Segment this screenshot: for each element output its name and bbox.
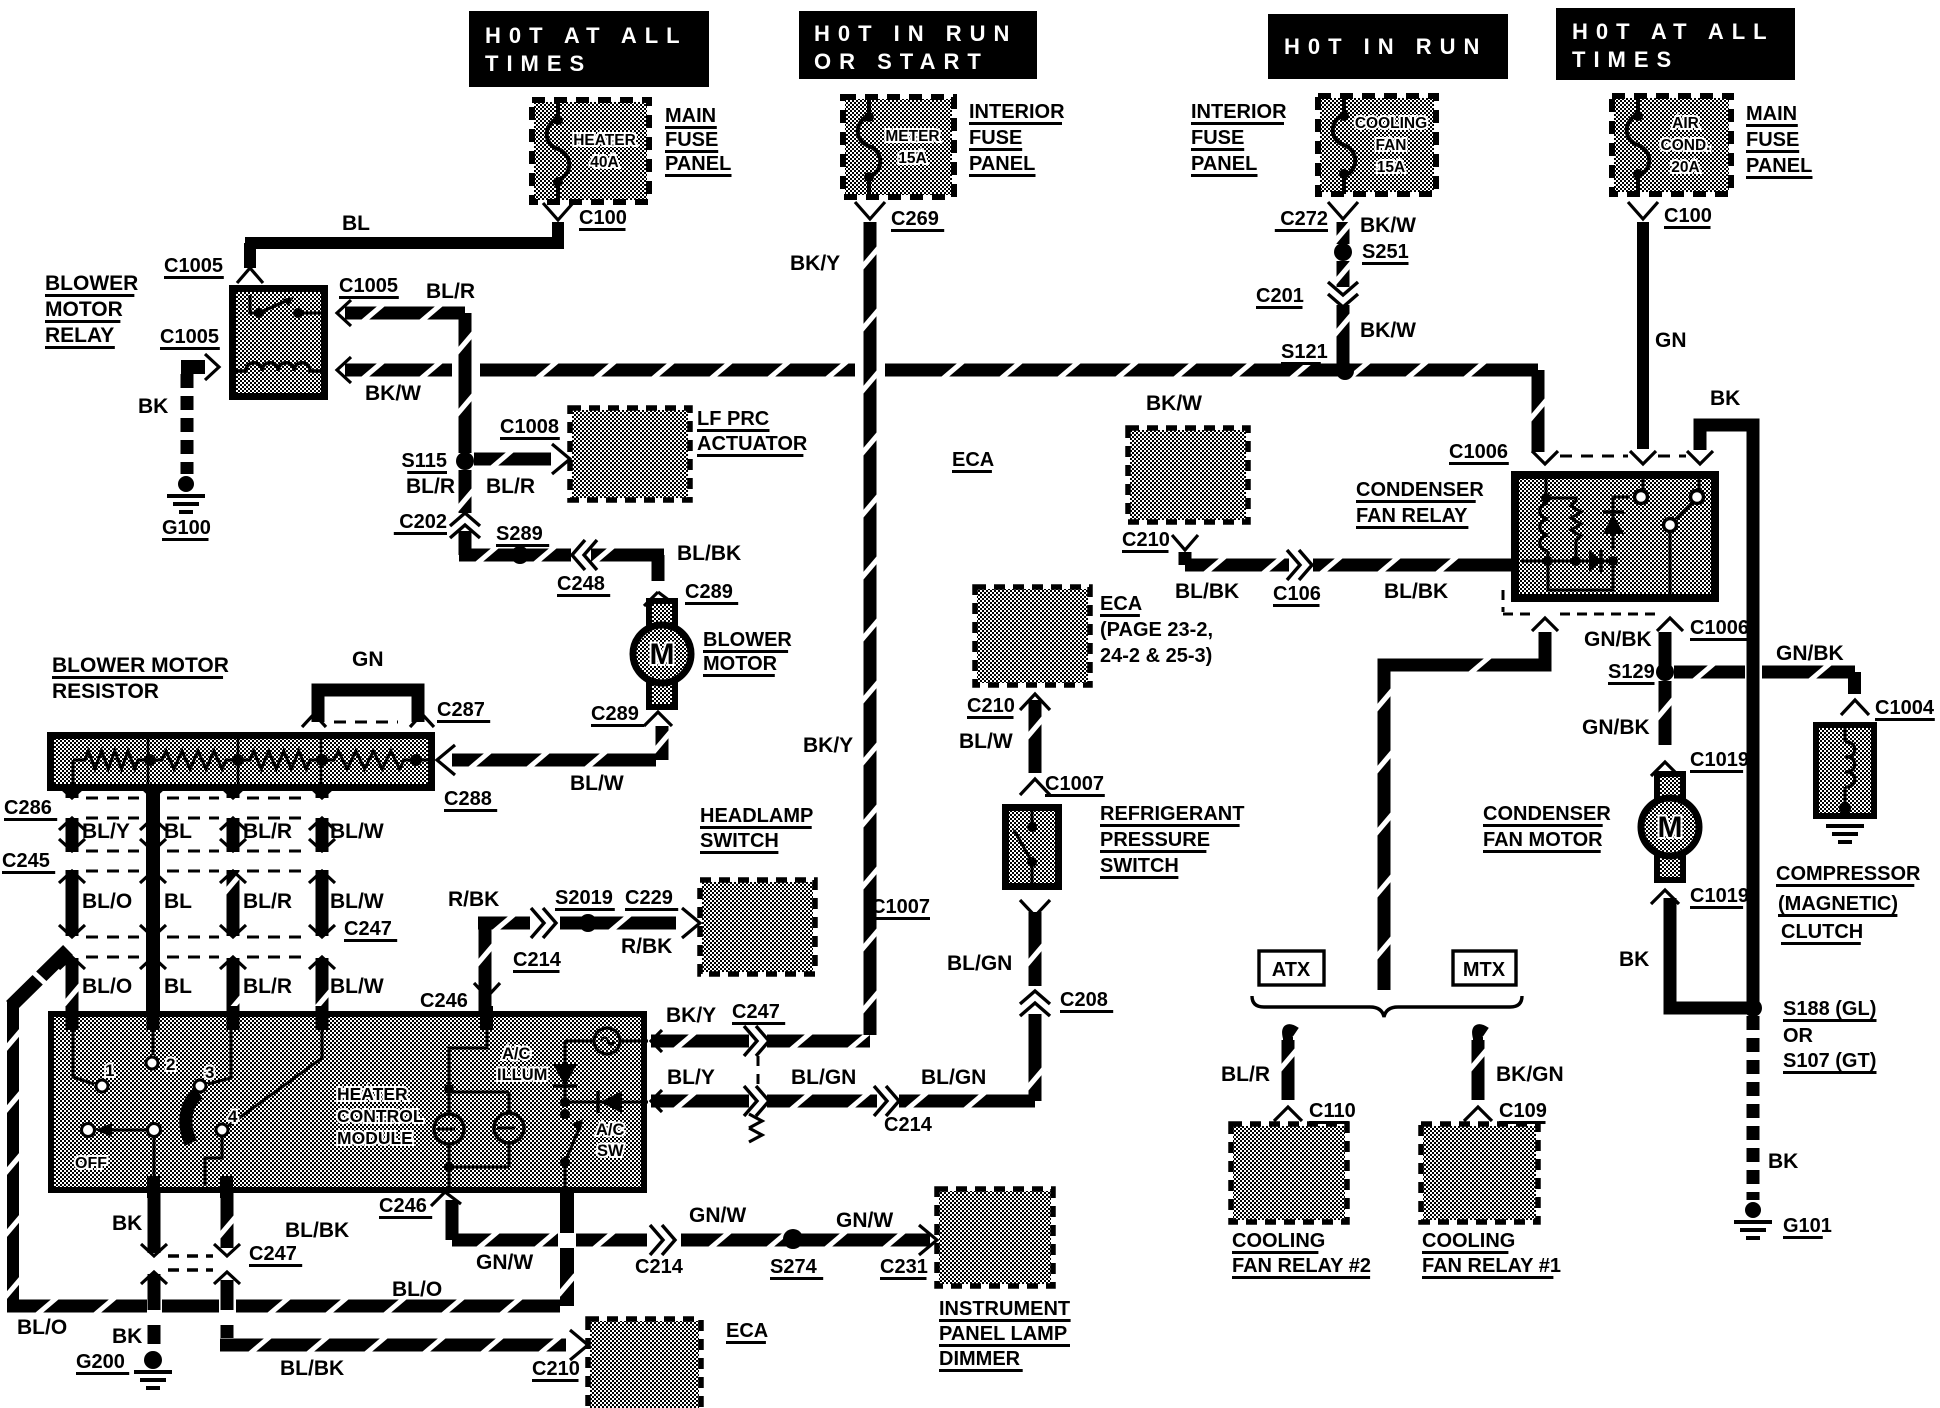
svg-text:C245: C245 <box>2 850 50 872</box>
connector C1019 (bottom) <box>1651 885 1749 908</box>
label A/C SW <box>596 1121 625 1160</box>
svg-text:3: 3 <box>205 1063 214 1082</box>
label HEATER CONTROL MODULE <box>337 1084 424 1148</box>
svg-text:BL/O: BL/O <box>82 890 132 913</box>
svg-text:C214: C214 <box>513 949 562 971</box>
svg-text:C247: C247 <box>344 918 392 940</box>
svg-text:C202: C202 <box>399 511 447 533</box>
svg-text:FUSE: FUSE <box>969 127 1022 149</box>
svg-text:TIMES: TIMES <box>1572 47 1679 72</box>
module heater control module box <box>48 1011 647 1193</box>
svg-text:C289: C289 <box>591 703 639 725</box>
wire BK module to ground G200 <box>112 1193 161 1348</box>
connector C1004 <box>1841 697 1935 720</box>
wire BK/W S251 to C201 <box>1335 261 1352 287</box>
svg-text:G101: G101 <box>1783 1215 1832 1237</box>
svg-text:ACTUATOR: ACTUATOR <box>697 433 808 455</box>
svg-text:BK/W: BK/W <box>1360 214 1416 237</box>
label LF PRC ACTUATOR <box>697 408 808 456</box>
module instrument panel lamp dimmer box <box>937 1189 1053 1286</box>
connector C289 above blower motor <box>644 581 738 606</box>
wire BK dashed to ground G101 <box>1753 1016 1798 1200</box>
svg-text:COOLING: COOLING <box>1355 115 1427 132</box>
wire labels row 3 <box>82 975 384 998</box>
svg-text:COMPRESSOR: COMPRESSOR <box>1776 863 1921 885</box>
connector C214 on BL/GN wire <box>874 1086 933 1136</box>
module ECA box (bottom) <box>588 1319 701 1408</box>
splice S121 <box>1281 341 1354 380</box>
svg-text:BL: BL <box>164 890 192 913</box>
svg-text:PANEL: PANEL <box>1191 153 1257 175</box>
svg-text:BK/W: BK/W <box>365 382 421 405</box>
wire GN from C100 to condenser fan relay <box>1637 222 1687 449</box>
svg-text:BL/GN: BL/GN <box>791 1066 856 1089</box>
svg-text:BL/Y: BL/Y <box>667 1066 715 1089</box>
svg-text:C1008: C1008 <box>500 416 559 438</box>
svg-text:BL/R: BL/R <box>243 820 292 843</box>
connector C210 below page ECA <box>967 694 1050 718</box>
connector C246 below module <box>379 1192 461 1218</box>
connector C106 <box>1273 550 1321 606</box>
svg-text:C269: C269 <box>891 208 939 230</box>
svg-text:ECA: ECA <box>726 1320 768 1342</box>
label CONDENSER FAN RELAY <box>1356 479 1484 528</box>
svg-text:BL/O: BL/O <box>82 975 132 998</box>
svg-text:C246: C246 <box>379 1195 427 1217</box>
label HEADLAMP SWITCH <box>700 805 813 853</box>
connector C109 <box>1464 1100 1547 1123</box>
svg-text:C214: C214 <box>635 1256 684 1278</box>
power label HOT AT ALL TIMES (right) <box>1556 8 1795 80</box>
label INSTRUMENT PANEL LAMP DIMMER <box>939 1298 1071 1371</box>
svg-text:4: 4 <box>228 1107 238 1126</box>
svg-text:C110: C110 <box>1309 1100 1356 1122</box>
wire BK/W C272 to S251 <box>1335 214 1417 244</box>
wire BL/R from S115 down to C202 <box>406 470 474 513</box>
connector C110 <box>1274 1100 1356 1123</box>
wire GN/BK relay to ATX/MTX brace <box>1376 632 1546 990</box>
svg-text:(PAGE 23-2,: (PAGE 23-2, <box>1100 619 1213 641</box>
module top pin stubs <box>66 1006 494 1030</box>
connector C231 <box>880 1225 937 1279</box>
svg-text:GN/BK: GN/BK <box>1582 716 1650 739</box>
module internal thermal limiter and AC switch <box>553 1028 648 1188</box>
connector C214 on GN/W wire <box>635 1225 684 1278</box>
svg-text:COOLING: COOLING <box>1232 1230 1325 1252</box>
svg-text:MAIN: MAIN <box>1746 103 1797 125</box>
component LF PRC ACTUATOR box <box>570 408 690 500</box>
connector C269 below meter fuse <box>855 202 944 231</box>
svg-text:BK/W: BK/W <box>1146 392 1202 415</box>
svg-text:M: M <box>650 638 675 671</box>
connector C1005 relay left (BK) <box>160 326 220 380</box>
module right edge exit chevrons <box>651 1030 662 1112</box>
svg-text:C246: C246 <box>420 990 468 1012</box>
wire R/BK module to headlamp switch <box>448 888 676 1011</box>
splice S115 <box>401 450 474 473</box>
svg-text:BL/R: BL/R <box>1221 1063 1270 1086</box>
connector C289 below blower motor <box>591 703 672 726</box>
svg-text:C100: C100 <box>579 207 627 229</box>
svg-text:BL/O: BL/O <box>392 1278 442 1301</box>
wire GN/BK S129 to compressor clutch <box>1674 642 1861 694</box>
wire BL from C100 to blower motor relay <box>244 212 564 268</box>
svg-text:ILLUM: ILLUM <box>497 1066 547 1084</box>
wire BL/Y BL/GN module to C208 corner <box>651 925 1044 1110</box>
svg-text:BL/W: BL/W <box>330 820 384 843</box>
wire BL/W to refrigerant pressure switch <box>959 700 1044 773</box>
svg-text:C288: C288 <box>444 788 492 810</box>
svg-text:INTERIOR: INTERIOR <box>969 101 1065 123</box>
brace for ATX/MTX split <box>1252 996 1522 1017</box>
relay K1 blower motor relay box <box>229 285 328 400</box>
wire BK condenser fan motor to S188 <box>1619 898 1748 1008</box>
label COMPRESSOR MAGNETIC CLUTCH <box>1776 863 1921 944</box>
svg-text:BL/O: BL/O <box>17 1316 67 1339</box>
svg-text:BLOWER: BLOWER <box>45 272 138 295</box>
svg-text:BL/BK: BL/BK <box>280 1357 344 1380</box>
svg-text:MODULE: MODULE <box>337 1128 413 1148</box>
module internal AC illumination lamps <box>434 1030 524 1188</box>
svg-text:GN/W: GN/W <box>836 1209 893 1232</box>
wire BK from condenser fan relay to S188 vertical <box>1700 387 1753 1003</box>
connector C1007 (bottom) <box>870 896 1050 919</box>
svg-text:CONDENSER: CONDENSER <box>1356 479 1484 501</box>
svg-text:C272: C272 <box>1280 208 1328 230</box>
wire BL/GN pressure switch to C208 <box>1029 912 1042 930</box>
ground G200 <box>76 1351 172 1388</box>
wire GN/W from C246 to instrument panel lamp dimmer <box>446 1200 931 1274</box>
svg-text:PANEL: PANEL <box>1746 155 1812 177</box>
svg-text:BL/R: BL/R <box>243 890 292 913</box>
splice S289 <box>496 523 549 564</box>
svg-text:FAN RELAY #1: FAN RELAY #1 <box>1422 1255 1561 1277</box>
wire BK relay to ground G100 <box>138 360 205 474</box>
svg-text:SWITCH: SWITCH <box>700 830 779 852</box>
connector C246 at module top (R/BK pin) <box>420 983 500 1013</box>
svg-text:METER: METER <box>885 128 939 145</box>
svg-text:C286: C286 <box>4 797 52 819</box>
svg-text:BL/GN: BL/GN <box>947 952 1012 975</box>
svg-text:BK/W: BK/W <box>1360 319 1416 342</box>
svg-text:S274: S274 <box>770 1256 818 1278</box>
wire GN/BK S129 down to C1019 <box>1582 681 1674 745</box>
wire BK/W from relay to S121 and condenser fan relay <box>345 362 1547 453</box>
svg-text:BK: BK <box>138 395 168 418</box>
connector C202 <box>394 511 480 538</box>
svg-text:S289: S289 <box>496 523 543 545</box>
svg-text:PANEL: PANEL <box>665 153 731 175</box>
wire BK/GN to cooling fan relay 1 <box>1470 1029 1564 1100</box>
svg-text:BL/R: BL/R <box>426 280 475 303</box>
svg-text:15A: 15A <box>1377 159 1405 176</box>
svg-text:C231: C231 <box>880 1256 928 1278</box>
svg-text:S2019: S2019 <box>555 887 613 909</box>
svg-text:C1006: C1006 <box>1690 617 1749 639</box>
wire labels row 1 <box>82 820 384 843</box>
svg-text:R/BK: R/BK <box>621 935 672 958</box>
wire BL/O from C247 around left side to module bottom <box>5 950 576 1339</box>
svg-text:C106: C106 <box>1273 583 1321 605</box>
switch refrigerant pressure switch box <box>1002 804 1062 890</box>
label ECA (bottom) <box>726 1320 768 1343</box>
svg-text:C109: C109 <box>1499 1100 1547 1122</box>
svg-text:(MAGNETIC): (MAGNETIC) <box>1778 893 1898 915</box>
svg-text:C1005: C1005 <box>160 326 219 348</box>
svg-text:2: 2 <box>166 1055 175 1074</box>
svg-text:CONTROL: CONTROL <box>337 1106 424 1126</box>
connector C210 below middle ECA <box>1122 529 1198 552</box>
svg-text:DIMMER: DIMMER <box>939 1348 1021 1370</box>
svg-text:BK: BK <box>1710 387 1740 410</box>
svg-text:HEADLAMP: HEADLAMP <box>700 805 813 827</box>
wire GN jumper over resistor <box>318 648 418 722</box>
wire BL/R from S115 to LF PRC actuator <box>474 451 551 499</box>
label CONDENSER FAN MOTOR <box>1483 803 1611 852</box>
svg-text:OFF: OFF <box>75 1155 107 1172</box>
svg-text:H0T AT ALL: H0T AT ALL <box>485 23 688 48</box>
svg-text:HEATER: HEATER <box>573 132 636 149</box>
svg-text:S115: S115 <box>401 450 447 472</box>
svg-text:GN/W: GN/W <box>476 1251 533 1274</box>
wire BL/BK from C202 via S289 and C248 to C289 <box>459 531 742 581</box>
svg-text:H0T IN RUN: H0T IN RUN <box>1284 34 1487 59</box>
svg-text:OR: OR <box>1783 1025 1814 1047</box>
connector C210 to ECA (bottom) <box>532 1330 588 1381</box>
connector C100 below heater fuse <box>543 203 627 230</box>
svg-text:HEATER: HEATER <box>337 1084 408 1104</box>
connector row C286 <box>4 786 335 830</box>
svg-text:FAN: FAN <box>1376 137 1407 154</box>
svg-text:MOTOR: MOTOR <box>703 653 778 675</box>
solenoid compressor magnetic clutch coil <box>1813 722 1877 819</box>
svg-text:C247: C247 <box>249 1243 297 1265</box>
relay K2 condenser fan relay box <box>1511 471 1719 602</box>
svg-text:PANEL LAMP: PANEL LAMP <box>939 1323 1067 1345</box>
label COOLING FAN RELAY 2 <box>1232 1230 1371 1278</box>
label A/C ILLUM <box>497 1045 547 1084</box>
svg-text:BL/GN: BL/GN <box>921 1066 986 1089</box>
svg-text:H0T AT ALL: H0T AT ALL <box>1572 19 1775 44</box>
svg-text:GN/BK: GN/BK <box>1584 628 1652 651</box>
svg-text:BL/W: BL/W <box>959 730 1013 753</box>
connector C1008 <box>500 416 570 474</box>
wire BL/W from blower motor to C288 <box>452 726 671 795</box>
svg-text:CLUTCH: CLUTCH <box>1781 921 1863 943</box>
connector C247 on module right wires <box>732 1001 785 1142</box>
label ATX <box>1259 951 1324 985</box>
svg-text:FUSE: FUSE <box>1191 127 1244 149</box>
connector C1006 at relay top <box>1449 441 1713 464</box>
svg-text:24-2 & 25-3): 24-2 & 25-3) <box>1100 645 1212 667</box>
connector C287 <box>302 699 490 727</box>
svg-text:GN/W: GN/W <box>689 1204 746 1227</box>
resistor pack blower motor resistor box <box>47 732 435 791</box>
svg-text:BL/BK: BL/BK <box>1384 580 1448 603</box>
splice S251 <box>1334 241 1409 264</box>
connector C1006 at relay bottom <box>1503 590 1750 640</box>
motor M condenser fan motor <box>1641 774 1699 880</box>
splice S129 <box>1608 661 1674 684</box>
svg-text:ECA: ECA <box>952 449 994 471</box>
wire BL column 2 resistor to module <box>146 791 160 1028</box>
module ECA box (middle) <box>1128 428 1248 522</box>
connector C201 <box>1256 282 1358 308</box>
svg-text:LF PRC: LF PRC <box>697 408 769 430</box>
svg-text:BK/Y: BK/Y <box>790 252 840 275</box>
splice S188 / S107 <box>1744 998 1877 1073</box>
svg-text:FAN RELAY: FAN RELAY <box>1356 505 1468 527</box>
wire BL/Y column 1 resistor to module <box>64 791 81 1028</box>
svg-text:INSTRUMENT: INSTRUMENT <box>939 1298 1070 1320</box>
module bottom pin stubs <box>147 1176 233 1198</box>
svg-text:BL/R: BL/R <box>406 475 455 498</box>
svg-text:GN/BK: GN/BK <box>1776 642 1844 665</box>
svg-text:A/C: A/C <box>596 1121 625 1139</box>
connector C248 <box>557 540 610 596</box>
relay cooling fan relay 2 box <box>1231 1124 1347 1222</box>
svg-text:BK/GN: BK/GN <box>1496 1063 1564 1086</box>
label REFRIGERANT PRESSURE SWITCH <box>1100 803 1244 878</box>
svg-text:COOLING: COOLING <box>1422 1230 1515 1252</box>
wire BL/BK module to ECA C210 <box>219 1193 567 1380</box>
svg-text:C1019: C1019 <box>1690 749 1749 771</box>
svg-text:C248: C248 <box>557 573 605 595</box>
connector C272 below cooling fan fuse <box>1275 202 1358 231</box>
relay cooling fan relay 1 box <box>1421 1124 1538 1222</box>
svg-text:C210: C210 <box>967 695 1015 717</box>
power label HOT AT ALL TIMES (left) <box>469 11 709 87</box>
svg-text:BL: BL <box>164 975 192 998</box>
svg-text:BL/BK: BL/BK <box>677 542 741 565</box>
label INTERIOR FUSE PANEL (left) <box>969 101 1065 176</box>
wire BL/R to cooling fan relay 2 <box>1221 1029 1297 1100</box>
fuse AIR COND 20A in main fuse panel <box>1612 96 1731 194</box>
svg-text:GN: GN <box>1655 329 1687 352</box>
svg-text:S129: S129 <box>1608 661 1655 683</box>
connector C214 S2019 C229 on R/BK wire <box>513 887 678 972</box>
connector C1019 (top) <box>1651 749 1749 776</box>
svg-text:G200: G200 <box>76 1351 125 1373</box>
svg-text:C1007: C1007 <box>1045 773 1104 795</box>
svg-text:AIR: AIR <box>1672 115 1699 132</box>
svg-text:M: M <box>1658 811 1683 844</box>
svg-text:BL/W: BL/W <box>570 772 624 795</box>
connector C1005 relay right (BL/R) <box>337 275 399 326</box>
connector C100 below air cond fuse <box>1628 202 1712 228</box>
svg-text:C210: C210 <box>1122 529 1170 551</box>
svg-text:S107 (GT): S107 (GT) <box>1783 1050 1876 1072</box>
svg-text:S188 (GL): S188 (GL) <box>1783 998 1876 1020</box>
svg-text:C1019: C1019 <box>1690 885 1749 907</box>
ground G101 <box>1734 1202 1832 1238</box>
svg-text:S121: S121 <box>1281 341 1328 363</box>
connector C1007 (top) <box>1020 773 1105 796</box>
svg-text:40A: 40A <box>590 154 618 171</box>
svg-text:FAN MOTOR: FAN MOTOR <box>1483 829 1603 851</box>
svg-text:BK: BK <box>1619 948 1649 971</box>
svg-text:ATX: ATX <box>1272 959 1311 981</box>
svg-text:BK/Y: BK/Y <box>666 1004 716 1027</box>
label MAIN FUSE PANEL (left) <box>665 105 732 176</box>
svg-text:MAIN: MAIN <box>665 105 716 127</box>
svg-text:BK/Y: BK/Y <box>803 734 853 757</box>
svg-text:C201: C201 <box>1256 285 1304 307</box>
power label HOT IN RUN <box>1268 14 1508 79</box>
svg-text:C1005: C1005 <box>339 275 398 297</box>
svg-text:PRESSURE: PRESSURE <box>1100 829 1210 851</box>
svg-text:BL/R: BL/R <box>486 475 535 498</box>
svg-text:MTX: MTX <box>1463 959 1506 981</box>
svg-text:SWITCH: SWITCH <box>1100 855 1179 877</box>
label ECA (middle) <box>952 449 994 472</box>
svg-text:RESISTOR: RESISTOR <box>52 680 159 703</box>
connector C1005 at relay top <box>164 255 263 283</box>
svg-text:C100: C100 <box>1664 205 1712 227</box>
svg-text:BL/Y: BL/Y <box>82 820 130 843</box>
svg-text:BL: BL <box>164 820 192 843</box>
label INTERIOR FUSE PANEL (right) <box>1191 101 1287 176</box>
wire GN/BK relay to S129 <box>1584 628 1672 666</box>
wire BK/Y module to C269 vertical <box>651 222 879 1050</box>
svg-text:20A: 20A <box>1671 159 1699 176</box>
label MAIN FUSE PANEL (right) <box>1746 103 1813 178</box>
svg-text:MOTOR: MOTOR <box>45 298 123 321</box>
wire BL/BK from C210 to condenser fan relay <box>1175 552 1511 603</box>
wire BK/W C201 to S121 <box>1335 305 1417 368</box>
motor M blower motor <box>633 601 691 707</box>
svg-text:1: 1 <box>105 1061 114 1080</box>
wire BL/R column 3 resistor to module <box>225 791 242 1028</box>
svg-text:S251: S251 <box>1362 241 1409 263</box>
power label HOT IN RUN OR START <box>799 11 1037 79</box>
svg-text:C1005: C1005 <box>164 255 223 277</box>
connector chevron at relay BK/W exit <box>337 357 351 383</box>
label MTX <box>1453 951 1516 985</box>
wire BL/R from relay to S115 <box>345 280 475 453</box>
label ECA PAGE 23-2 24-2 25-3 <box>1100 593 1213 667</box>
svg-text:REFRIGERANT: REFRIGERANT <box>1100 803 1244 825</box>
svg-text:FUSE: FUSE <box>665 129 718 151</box>
svg-text:COND.: COND. <box>1661 137 1711 154</box>
module internal fan switch <box>73 1030 322 1186</box>
connector C229 chevron at headlamp switch <box>682 908 700 938</box>
splice S274 <box>770 1229 823 1279</box>
svg-text:TIMES: TIMES <box>485 51 592 76</box>
svg-text:G100: G100 <box>162 517 211 539</box>
switch headlamp switch box <box>700 880 815 974</box>
connector C288 <box>437 745 497 811</box>
label BLOWER MOTOR RELAY <box>45 272 138 348</box>
svg-text:BLOWER: BLOWER <box>703 629 792 651</box>
ground at compressor clutch <box>1826 826 1864 842</box>
wire labels row 2 <box>82 890 384 913</box>
svg-text:C1004: C1004 <box>1875 697 1935 719</box>
svg-text:A/C: A/C <box>502 1045 531 1063</box>
module ECA box (page refs) <box>975 587 1090 685</box>
svg-text:BL/BK: BL/BK <box>285 1219 349 1242</box>
svg-text:OR START: OR START <box>814 49 989 74</box>
svg-text:SW: SW <box>597 1142 624 1160</box>
connector row C247 (columns) <box>59 918 397 969</box>
svg-text:C289: C289 <box>685 581 733 603</box>
ground G100 <box>162 476 211 540</box>
svg-text:C287: C287 <box>437 699 485 721</box>
svg-text:GN: GN <box>352 648 384 671</box>
wire BL/W column 4 resistor to module <box>314 791 331 1028</box>
svg-text:C210: C210 <box>532 1358 580 1380</box>
connector row C245 <box>2 839 335 883</box>
